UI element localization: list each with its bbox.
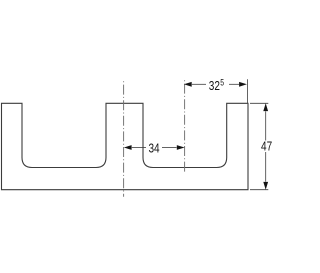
- svg-text:34: 34: [148, 141, 160, 156]
- svg-text:47: 47: [261, 139, 272, 154]
- svg-text:325: 325: [209, 78, 225, 94]
